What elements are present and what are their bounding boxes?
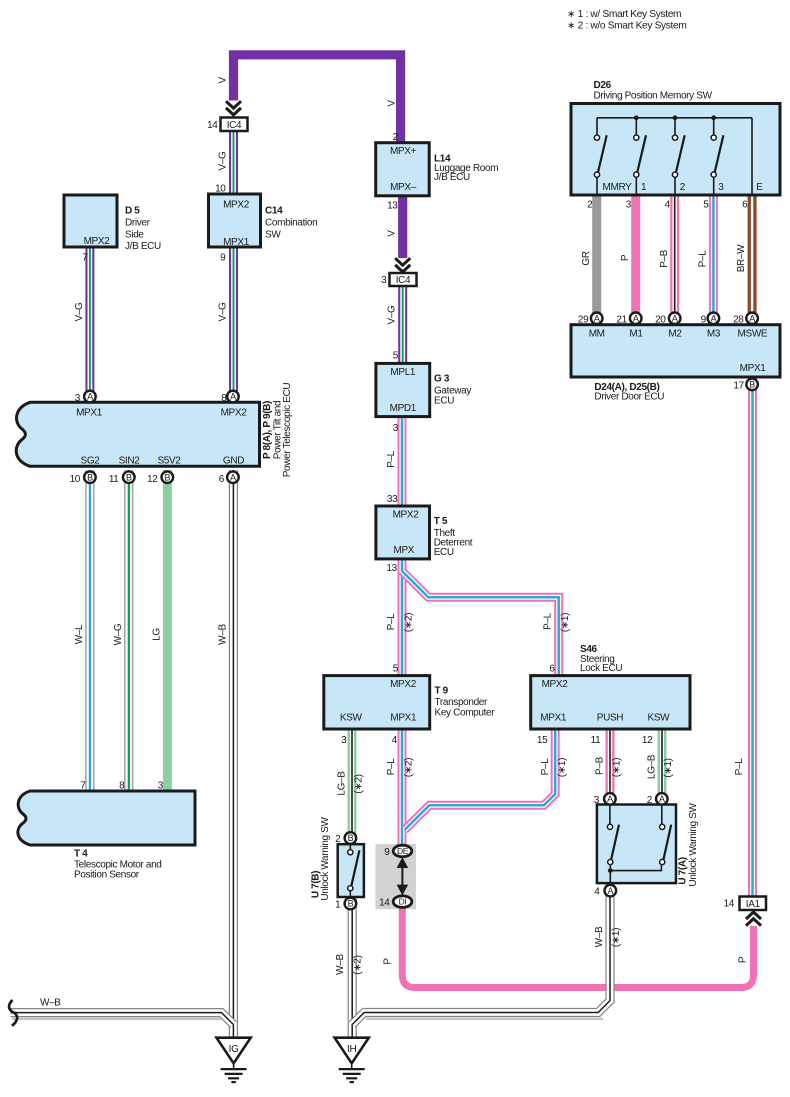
svg-text:P–L: P–L	[734, 758, 745, 776]
svg-text:2: 2	[647, 795, 653, 806]
svg-text:28: 28	[733, 314, 744, 325]
svg-text:D26: D26	[594, 80, 612, 91]
svg-text:LG–B: LG–B	[336, 771, 347, 796]
svg-text:(∗2): (∗2)	[353, 774, 364, 793]
svg-text:MPX2: MPX2	[390, 679, 417, 690]
svg-text:Lock ECU: Lock ECU	[580, 663, 622, 674]
svg-text:MPX2: MPX2	[221, 407, 248, 418]
svg-text:W–B: W–B	[217, 624, 228, 645]
svg-text:3: 3	[75, 393, 81, 404]
svg-text:6: 6	[219, 474, 225, 485]
svg-text:9: 9	[701, 314, 707, 325]
svg-text:SIN2: SIN2	[119, 456, 141, 467]
svg-text:21: 21	[616, 314, 627, 325]
svg-text:12: 12	[642, 735, 653, 746]
svg-text:P 8(A), P 9(B): P 8(A), P 9(B)	[262, 401, 273, 459]
svg-text:M3: M3	[707, 328, 721, 339]
svg-text:9: 9	[220, 252, 226, 263]
svg-text:3: 3	[393, 423, 399, 434]
svg-text:4: 4	[392, 735, 398, 746]
svg-text:1: 1	[335, 900, 341, 911]
svg-text:BR–W: BR–W	[736, 244, 747, 272]
svg-text:T 4: T 4	[74, 849, 88, 860]
svg-text:T 5: T 5	[434, 516, 448, 527]
svg-text:P: P	[382, 958, 393, 965]
svg-text:W–B: W–B	[335, 954, 346, 975]
svg-text:A: A	[711, 314, 717, 324]
svg-text:11: 11	[109, 474, 119, 485]
svg-text:Combination: Combination	[265, 218, 317, 229]
svg-text:MPX1: MPX1	[223, 237, 250, 248]
svg-text:V: V	[217, 76, 228, 83]
svg-text:8: 8	[221, 393, 227, 404]
svg-text:S5V2: S5V2	[157, 456, 181, 467]
svg-text:B: B	[348, 899, 354, 909]
svg-text:P–L: P–L	[386, 758, 397, 776]
svg-text:P–L: P–L	[386, 450, 397, 468]
svg-text:6: 6	[742, 199, 748, 210]
svg-text:P–B: P–B	[659, 249, 670, 268]
svg-text:3: 3	[341, 735, 347, 746]
svg-text:20: 20	[655, 314, 666, 325]
svg-text:B: B	[164, 472, 170, 482]
svg-text:A: A	[607, 886, 613, 896]
svg-text:(∗2): (∗2)	[352, 955, 363, 974]
svg-text:W–L: W–L	[74, 624, 85, 644]
svg-text:2: 2	[335, 834, 341, 845]
svg-text:MPX2: MPX2	[542, 679, 569, 690]
svg-text:MM: MM	[589, 328, 605, 339]
svg-text:M1: M1	[629, 328, 643, 339]
svg-text:Driver Door ECU: Driver Door ECU	[594, 392, 664, 403]
svg-text:15: 15	[537, 735, 548, 746]
svg-text:∗ 1 : w/ Smart Key System: ∗ 1 : w/ Smart Key System	[567, 9, 681, 20]
svg-text:2: 2	[587, 199, 593, 210]
svg-text:14: 14	[379, 898, 390, 909]
svg-text:A: A	[749, 314, 755, 324]
svg-text:DE: DE	[397, 846, 409, 856]
svg-text:V–G: V–G	[387, 305, 398, 325]
svg-text:A: A	[659, 794, 665, 804]
svg-text:(∗1): (∗1)	[557, 758, 568, 777]
svg-text:B: B	[126, 472, 132, 482]
svg-text:B: B	[749, 380, 755, 390]
svg-text:3: 3	[158, 781, 164, 792]
svg-text:2: 2	[680, 182, 686, 193]
svg-text:SW: SW	[265, 229, 281, 240]
svg-text:P–L: P–L	[543, 612, 554, 630]
svg-text:Driving Position Memory SW: Driving Position Memory SW	[594, 90, 713, 101]
svg-text:∗ 2 : w/o Smart Key System: ∗ 2 : w/o Smart Key System	[567, 21, 686, 32]
svg-text:V–G: V–G	[74, 302, 85, 322]
svg-text:Power Telescopic ECU: Power Telescopic ECU	[282, 383, 293, 478]
svg-text:(∗1): (∗1)	[611, 758, 622, 777]
svg-text:29: 29	[578, 314, 589, 325]
svg-text:5: 5	[703, 199, 709, 210]
svg-text:A: A	[633, 314, 639, 324]
svg-text:GR: GR	[581, 251, 592, 265]
svg-text:ECU: ECU	[434, 547, 454, 558]
svg-text:4: 4	[594, 887, 600, 898]
svg-text:MPX1: MPX1	[740, 363, 767, 374]
svg-text:P: P	[737, 956, 748, 963]
svg-text:10: 10	[70, 474, 81, 485]
svg-text:(∗2): (∗2)	[404, 613, 415, 632]
svg-text:B: B	[348, 833, 354, 843]
svg-text:MPX1: MPX1	[390, 713, 417, 724]
svg-text:MPX2: MPX2	[223, 200, 250, 211]
svg-text:IC4: IC4	[396, 275, 411, 286]
svg-text:9: 9	[384, 847, 390, 858]
svg-text:MPL1: MPL1	[390, 367, 416, 378]
svg-text:P–L: P–L	[540, 758, 551, 776]
svg-text:13: 13	[387, 201, 398, 212]
svg-text:7: 7	[82, 252, 88, 263]
svg-text:3: 3	[718, 182, 724, 193]
svg-text:V–G: V–G	[217, 302, 228, 322]
svg-text:DI: DI	[399, 897, 407, 907]
svg-text:11: 11	[591, 735, 601, 746]
svg-text:A: A	[230, 392, 236, 402]
svg-text:3: 3	[626, 199, 632, 210]
svg-text:Driver: Driver	[125, 218, 151, 229]
svg-text:MPX–: MPX–	[390, 182, 417, 193]
svg-text:V–G: V–G	[217, 151, 228, 171]
svg-text:PUSH: PUSH	[597, 713, 624, 724]
svg-text:A: A	[594, 314, 600, 324]
svg-text:(∗1): (∗1)	[560, 613, 571, 632]
svg-text:Transponder: Transponder	[435, 697, 488, 708]
svg-text:Side: Side	[125, 229, 144, 240]
svg-text:P: P	[620, 254, 631, 261]
svg-text:3: 3	[594, 795, 600, 806]
svg-text:Position Sensor: Position Sensor	[74, 870, 140, 881]
svg-text:4: 4	[665, 199, 671, 210]
svg-text:V: V	[386, 230, 397, 237]
svg-text:6: 6	[549, 664, 555, 675]
svg-text:14: 14	[207, 120, 218, 131]
svg-text:B: B	[87, 472, 93, 482]
svg-text:LG: LG	[151, 628, 162, 641]
svg-text:IG: IG	[229, 1044, 239, 1055]
svg-text:33: 33	[387, 494, 398, 505]
svg-text:W–G: W–G	[113, 623, 124, 645]
svg-text:P–B: P–B	[595, 756, 606, 775]
svg-text:W–B: W–B	[594, 926, 605, 947]
svg-text:12: 12	[147, 474, 158, 485]
svg-text:MMRY: MMRY	[603, 182, 633, 193]
svg-text:Key Computer: Key Computer	[435, 708, 496, 719]
svg-text:MPX: MPX	[393, 545, 414, 556]
svg-text:W–B: W–B	[40, 998, 61, 1009]
svg-text:J/B ECU: J/B ECU	[125, 241, 161, 252]
svg-text:E: E	[756, 182, 763, 193]
svg-text:2: 2	[393, 132, 399, 143]
svg-text:(∗2): (∗2)	[404, 758, 415, 777]
svg-text:ECU: ECU	[434, 395, 454, 406]
svg-text:MPX2: MPX2	[393, 509, 420, 520]
svg-text:3: 3	[381, 275, 387, 286]
svg-text:IC4: IC4	[227, 120, 242, 131]
svg-text:SG2: SG2	[81, 456, 101, 467]
svg-text:IH: IH	[347, 1044, 356, 1055]
svg-text:A: A	[87, 392, 93, 402]
svg-text:G 3: G 3	[434, 374, 450, 385]
svg-text:D 5: D 5	[125, 206, 140, 217]
svg-text:LG–B: LG–B	[647, 754, 658, 779]
svg-text:Unlock Warning SW: Unlock Warning SW	[688, 803, 699, 887]
svg-text:M2: M2	[668, 328, 682, 339]
svg-text:10: 10	[215, 184, 226, 195]
svg-text:1: 1	[641, 182, 647, 193]
svg-text:17: 17	[733, 380, 744, 391]
svg-text:MPX+: MPX+	[390, 146, 417, 157]
svg-text:Unlock Warning SW: Unlock Warning SW	[320, 817, 331, 901]
svg-text:(∗1): (∗1)	[663, 758, 674, 777]
svg-text:V: V	[386, 100, 397, 107]
svg-text:MSWE: MSWE	[738, 328, 768, 339]
svg-text:U 7(A): U 7(A)	[678, 857, 689, 884]
svg-text:A: A	[672, 314, 678, 324]
svg-text:14: 14	[724, 899, 735, 910]
svg-text:(∗1): (∗1)	[611, 928, 622, 947]
svg-text:T 9: T 9	[435, 686, 449, 697]
svg-text:5: 5	[393, 664, 399, 675]
svg-text:C14: C14	[265, 206, 283, 217]
svg-text:P–L: P–L	[386, 613, 397, 631]
svg-text:8: 8	[119, 781, 125, 792]
svg-text:KSW: KSW	[648, 713, 671, 724]
svg-text:P–L: P–L	[698, 250, 709, 268]
svg-text:13: 13	[386, 563, 397, 574]
svg-text:A: A	[230, 472, 236, 482]
svg-text:MPX1: MPX1	[540, 713, 567, 724]
svg-text:IA1: IA1	[746, 899, 761, 910]
svg-text:MPD1: MPD1	[390, 403, 417, 414]
svg-text:MPX2: MPX2	[84, 236, 111, 247]
svg-text:GND: GND	[223, 456, 244, 467]
svg-text:J/B ECU: J/B ECU	[434, 172, 470, 183]
svg-text:MPX1: MPX1	[76, 407, 103, 418]
svg-text:5: 5	[393, 350, 399, 361]
svg-text:A: A	[607, 794, 613, 804]
svg-text:7: 7	[80, 781, 86, 792]
svg-text:KSW: KSW	[340, 713, 363, 724]
